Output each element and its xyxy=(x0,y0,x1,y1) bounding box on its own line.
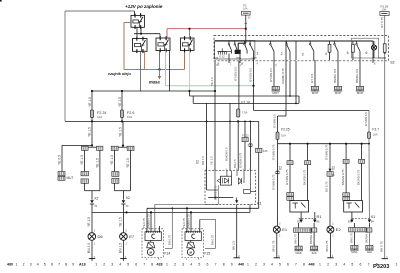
svg-text:F2.18: F2.18 xyxy=(241,100,250,104)
svg-text:R1: R1 xyxy=(317,215,322,219)
K1 pin wire g xyxy=(249,121,251,170)
svg-text:44: 44 xyxy=(126,204,129,208)
svg-text:2: 2 xyxy=(255,262,257,266)
connector MCP2 xyxy=(334,86,341,90)
svg-text:9: 9 xyxy=(72,262,74,266)
svg-text:GY/BN 0.5: GY/BN 0.5 xyxy=(269,68,273,82)
wire +12V feed to relay K? top xyxy=(65,10,135,12)
Y15 coil box xyxy=(185,232,201,241)
wire relay K3 pin to brown xyxy=(144,51,146,69)
net ladder top xyxy=(189,91,191,96)
relay R1 box xyxy=(290,201,309,213)
svg-text:D6: D6 xyxy=(98,234,104,239)
svg-text:BU 0.75: BU 0.75 xyxy=(324,181,328,192)
wire branch2 from bus xyxy=(122,121,124,146)
wire D6 to ground xyxy=(91,240,93,258)
S2 resistor a xyxy=(329,41,331,44)
fuse F2.6 tail xyxy=(121,118,123,122)
svg-text:S2: S2 xyxy=(390,60,394,64)
svg-text:YE 1.5: YE 1.5 xyxy=(80,155,84,165)
svg-text:YE 1.5: YE 1.5 xyxy=(126,158,130,168)
svg-text:BN/BU 0.75: BN/BU 0.75 xyxy=(187,214,191,228)
svg-text:2: 2 xyxy=(23,262,25,266)
svg-text:1: 1 xyxy=(125,255,127,259)
svg-text:BN 0.75: BN 0.75 xyxy=(294,233,298,244)
wire to fuse F2.24 xyxy=(91,91,93,110)
svg-text:1: 1 xyxy=(396,262,398,266)
svg-text:1: 1 xyxy=(16,262,18,266)
junction yellow-bus xyxy=(188,90,190,92)
K1 injector symbol xyxy=(220,176,231,185)
wire E7 to ground xyxy=(122,240,124,258)
svg-text:GY/BN 0.5: GY/BN 0.5 xyxy=(364,112,368,126)
S2 pin R1b xyxy=(295,41,297,60)
svg-text:7: 7 xyxy=(58,262,60,266)
svg-text:7: 7 xyxy=(215,262,217,266)
svg-text:YE 1.5: YE 1.5 xyxy=(88,97,92,107)
bus y110 to F3.7 xyxy=(254,109,370,111)
svg-text:GY/BN 0.75: GY/BN 0.75 xyxy=(271,144,275,160)
connector F3.22 xyxy=(242,138,248,142)
svg-text:2: 2 xyxy=(281,52,283,56)
R1 dashed link xyxy=(299,218,317,220)
wire S2 to F2.25 xyxy=(285,61,287,116)
svg-text:1: 1 xyxy=(279,234,281,238)
S2 coil blob xyxy=(235,50,240,54)
svg-text:GY/BN 0.75: GY/BN 0.75 xyxy=(324,144,328,160)
svg-text:YE 1.5: YE 1.5 xyxy=(87,217,91,227)
scan artifact top-left corner xyxy=(0,0,2,2)
connector arrow branch2 xyxy=(122,200,126,203)
wire K45 from bus xyxy=(258,121,260,148)
wire riser left xyxy=(64,11,66,121)
svg-text:E2: E2 xyxy=(336,227,342,232)
wire S2 resistor ground run xyxy=(384,52,386,258)
relay K4 (row mid) xyxy=(156,38,170,51)
svg-text:480: 480 xyxy=(7,262,13,266)
svg-text:2: 2 xyxy=(230,63,232,66)
wire F2.29 down xyxy=(384,15,386,43)
K1 dashed box xyxy=(205,171,256,205)
svg-text:X2: X2 xyxy=(94,197,98,201)
svg-text:5: 5 xyxy=(347,51,349,55)
svg-text:F3.7: F3.7 xyxy=(372,127,379,131)
svg-text:30: 30 xyxy=(248,17,251,19)
svg-text:BK/WH 0.75: BK/WH 0.75 xyxy=(309,228,313,244)
svg-text:E1: E1 xyxy=(282,227,288,232)
svg-text:X2: X2 xyxy=(126,196,130,200)
svg-text:BN/BU 0.75: BN/BU 0.75 xyxy=(147,214,151,228)
svg-text:GY/BN 0.5: GY/BN 0.5 xyxy=(273,114,277,128)
svg-text:1: 1 xyxy=(166,262,168,266)
Y15 valve xyxy=(190,241,192,243)
relay K2 (top) xyxy=(131,15,144,27)
svg-text:BN/YE 0.75: BN/YE 0.75 xyxy=(213,185,217,200)
junctions bus y212 xyxy=(125,211,127,213)
svg-text:YE 0.75: YE 0.75 xyxy=(182,218,186,228)
connector inline X1b xyxy=(359,159,365,163)
wire S2 pin2 to F2.18 xyxy=(238,61,240,109)
svg-text:GY/BN 0.75: GY/BN 0.75 xyxy=(285,169,289,185)
wire S2 pins to ladder xyxy=(289,61,291,96)
wire Y15 pin4 loop xyxy=(199,219,201,231)
junctions bus y144 xyxy=(289,143,291,145)
svg-text:YE 1.5: YE 1.5 xyxy=(210,77,214,86)
relay X1 box xyxy=(344,201,363,213)
svg-text:+12V po zaplonie: +12V po zaplonie xyxy=(125,4,163,9)
svg-text:YE 1.5: YE 1.5 xyxy=(210,156,214,165)
svg-text:8: 8 xyxy=(65,262,67,266)
S2 plain pin F225 xyxy=(285,41,287,61)
connector C15 xyxy=(81,171,89,175)
K1 pin wire e xyxy=(237,121,239,170)
svg-text:1: 1 xyxy=(186,258,188,261)
R1 connector strip xyxy=(294,228,312,233)
net ladder bottom xyxy=(193,102,299,104)
wire branch2 left leg xyxy=(114,150,116,171)
svg-text:8: 8 xyxy=(303,262,305,266)
bus y91 xyxy=(91,90,215,92)
svg-text:YE 1.5: YE 1.5 xyxy=(119,127,123,137)
wire branch2 left leg2 xyxy=(114,183,116,190)
wire R1 contact feed2 xyxy=(307,165,309,201)
wire E1 from bus xyxy=(277,144,279,226)
wire yellow from relay K5 xyxy=(189,51,191,92)
svg-text:440: 440 xyxy=(238,262,244,266)
svg-text:8: 8 xyxy=(374,63,376,66)
lamp E7 xyxy=(120,233,128,241)
svg-text:10A: 10A xyxy=(97,115,102,119)
X1 arrows xyxy=(351,212,353,220)
connector stack X1 xyxy=(343,193,350,197)
wires relay K2 to relay row xyxy=(136,27,138,38)
svg-text:7: 7 xyxy=(368,262,370,266)
wire branch2 to lamp xyxy=(122,204,124,233)
svg-text:42A: 42A xyxy=(312,251,317,255)
connector MCP3 xyxy=(356,86,363,90)
svg-text:YE 1.5: YE 1.5 xyxy=(119,217,123,227)
svg-text:MAK: MAK xyxy=(351,250,357,254)
S2 contacts 1-6 xyxy=(249,41,251,43)
svg-text:MOT: MOT xyxy=(272,91,279,95)
svg-text:YE 1.5: YE 1.5 xyxy=(95,158,99,168)
svg-text:X2: X2 xyxy=(332,166,336,170)
wire Y14 pin1 xyxy=(146,208,148,232)
relay pin stubs top xyxy=(134,11,136,15)
svg-text:BN/GN 0.75: BN/GN 0.75 xyxy=(341,169,345,185)
bus y144 xyxy=(278,143,370,145)
Y14 motor xyxy=(150,247,152,250)
connector R1 out1 xyxy=(295,246,302,250)
svg-text:6: 6 xyxy=(287,262,289,266)
svg-text:K1: K1 xyxy=(257,202,262,206)
lamp D6 xyxy=(88,233,96,241)
svg-text:1: 1 xyxy=(146,258,148,261)
connector X2 E2 xyxy=(329,169,332,172)
svg-text:6: 6 xyxy=(360,262,362,266)
wire green from relay K4 xyxy=(165,51,167,86)
svg-text:1: 1 xyxy=(386,255,388,259)
svg-text:3: 3 xyxy=(30,262,32,266)
svg-text:428: 428 xyxy=(157,262,163,266)
connector X pair branch2 xyxy=(111,146,118,150)
wire brown from relay to masa bus xyxy=(124,22,131,24)
S2 thick feed path xyxy=(245,41,247,43)
wire F3.7 down xyxy=(368,139,370,144)
wire fuse F2.30 down xyxy=(245,15,247,35)
lamp E2 xyxy=(327,226,334,233)
svg-text:1: 1 xyxy=(332,234,334,238)
svg-text:X2: X2 xyxy=(196,160,200,164)
svg-text:M: M xyxy=(149,250,152,254)
wire branch1 left leg xyxy=(84,150,86,171)
wire X1 out2 xyxy=(368,223,370,227)
svg-text:BU/GN 0.5: BU/GN 0.5 xyxy=(225,147,229,161)
relay K5 (row right) xyxy=(181,38,195,51)
svg-text:BK/WH 0.75: BK/WH 0.75 xyxy=(364,227,368,243)
K1 pin wire c xyxy=(229,103,231,170)
svg-text:YE 1.5: YE 1.5 xyxy=(118,97,122,107)
svg-text:5: 5 xyxy=(198,262,200,266)
svg-text:X1: X1 xyxy=(371,215,376,219)
S2 pin stubs xyxy=(228,54,230,64)
svg-text:4: 4 xyxy=(257,63,259,66)
junction green end xyxy=(252,85,254,87)
connector MCP1 xyxy=(311,86,318,90)
S2 resistor b xyxy=(352,41,354,44)
bus y208 K1 out xyxy=(147,207,259,209)
svg-text:YE 0.75: YE 0.75 xyxy=(142,218,146,228)
K1 pin wire f xyxy=(244,121,246,170)
svg-text:4: 4 xyxy=(37,262,39,266)
svg-text:10A: 10A xyxy=(281,134,286,138)
svg-text:3: 3 xyxy=(182,262,184,266)
svg-text:NWK: NWK xyxy=(236,58,242,60)
svg-text:3: 3 xyxy=(302,53,304,57)
svg-text:2: 2 xyxy=(279,221,281,225)
junction bus y208 xyxy=(186,207,188,209)
svg-text:W: W xyxy=(241,63,244,66)
connector C16 xyxy=(112,172,119,177)
K1 internal wires xyxy=(206,171,208,190)
svg-text:BN/BU 0.5: BN/BU 0.5 xyxy=(355,68,359,83)
S2 right resistor xyxy=(383,44,386,53)
svg-text:MAK: MAK xyxy=(295,251,301,255)
fuse F2.25 xyxy=(276,132,279,139)
S2 comb symbol xyxy=(217,51,227,53)
svg-text:2: 2 xyxy=(125,229,127,233)
connector stack R1 xyxy=(287,192,294,196)
svg-text:GY 0.5: GY 0.5 xyxy=(310,73,314,83)
svg-text:8: 8 xyxy=(223,262,225,266)
connector inline R1a xyxy=(287,161,293,165)
wire E2 from bus xyxy=(329,144,331,226)
wire R1 contact feed xyxy=(307,144,309,161)
svg-text:BN 0.75: BN 0.75 xyxy=(168,234,172,245)
svg-text:5: 5 xyxy=(351,262,353,266)
svg-text:1: 1 xyxy=(247,262,249,266)
wire relay K4 pin2 down xyxy=(168,51,170,92)
Y15 dashed box xyxy=(182,229,203,258)
wire F2.30 into bus2 xyxy=(245,35,247,41)
terminal E7 xyxy=(120,258,126,260)
svg-text:3: 3 xyxy=(275,64,277,67)
svg-text:6: 6 xyxy=(366,51,368,55)
svg-text:10A: 10A xyxy=(243,7,248,11)
wire Y15 pin1 xyxy=(186,208,188,232)
wire X1 contact feed xyxy=(361,144,363,160)
svg-text:MUT: MUT xyxy=(67,176,74,180)
svg-text:GMR: GMR xyxy=(252,58,258,60)
svg-text:1: 1 xyxy=(319,262,321,266)
Y15 motor xyxy=(190,247,192,250)
Y14 dashed box xyxy=(142,229,163,258)
svg-text:MCP: MCP xyxy=(312,91,318,95)
connector MUT xyxy=(58,172,65,176)
fuse F2.30 holder top xyxy=(242,11,251,15)
svg-text:F3.22: F3.22 xyxy=(242,134,249,137)
S2 inner bus xyxy=(215,40,373,42)
svg-text:BN 0.75: BN 0.75 xyxy=(272,240,276,251)
connector R1 out2 xyxy=(311,246,318,250)
svg-text:8: 8 xyxy=(151,262,153,266)
svg-text:2: 2 xyxy=(174,262,176,266)
S2 inner unit box xyxy=(215,41,255,60)
svg-text:1: 1 xyxy=(256,52,258,56)
wire R1 coil feed2 xyxy=(289,165,291,193)
svg-text:6: 6 xyxy=(135,262,137,266)
wire E1 ground xyxy=(276,233,278,258)
connector X1 out2 xyxy=(366,245,373,249)
svg-text:BK/RD 0.75: BK/RD 0.75 xyxy=(302,169,306,185)
ground arrow masa xyxy=(159,69,161,76)
svg-text:5: 5 xyxy=(127,262,129,266)
wire Y15 pin2 xyxy=(190,212,192,231)
junction red xyxy=(188,28,190,30)
svg-text:GY/GN 0.75: GY/GN 0.75 xyxy=(239,152,243,168)
svg-text:10A: 10A xyxy=(127,115,132,119)
connector X1 out1 xyxy=(351,245,358,249)
junctions bus y121 xyxy=(91,120,93,122)
svg-text:X2: X2 xyxy=(279,166,283,170)
svg-text:3: 3 xyxy=(335,262,337,266)
svg-text:YE 0.5: YE 0.5 xyxy=(58,155,62,165)
wire K4x down to bus2 xyxy=(258,152,260,208)
bus y121 xyxy=(65,120,259,122)
wire relay K3 gray down xyxy=(140,51,142,91)
svg-text:A18: A18 xyxy=(79,262,86,266)
terminal right ground xyxy=(382,258,388,260)
svg-text:BN 0.75: BN 0.75 xyxy=(211,234,215,245)
svg-text:F2.6: F2.6 xyxy=(127,111,134,115)
svg-text:F2.25: F2.25 xyxy=(281,128,290,132)
svg-text:M: M xyxy=(189,250,192,254)
svg-text:BN 0.75: BN 0.75 xyxy=(380,241,384,252)
svg-text:2: 2 xyxy=(327,262,329,266)
K1 bottom-right pin wires xyxy=(249,205,251,213)
fuse F2.29 holder xyxy=(380,12,389,16)
wire bus110 corner to F3.7 xyxy=(368,110,370,132)
svg-text:5: 5 xyxy=(198,258,200,261)
svg-text:4: 4 xyxy=(190,262,192,266)
wire Y14 pin4 xyxy=(159,226,161,232)
wire to MUT xyxy=(62,144,92,146)
svg-text:Y14: Y14 xyxy=(164,252,170,256)
connector K4x xyxy=(256,148,262,152)
fuse F2.6 xyxy=(120,110,123,118)
svg-text:RD 1.5: RD 1.5 xyxy=(201,156,205,165)
terminal E1 xyxy=(274,257,280,259)
net y204 Y14 pin3 xyxy=(155,203,219,205)
svg-text:3: 3 xyxy=(111,262,113,266)
svg-text:4: 4 xyxy=(325,52,327,56)
svg-text:BN 1.5: BN 1.5 xyxy=(87,243,91,253)
svg-text:448: 448 xyxy=(309,262,315,266)
wire X1 coil feed2 xyxy=(345,163,347,193)
svg-text:BN 0.75: BN 0.75 xyxy=(349,232,353,243)
wire X1 contact feed2 xyxy=(361,163,363,200)
K1 internals rail xyxy=(208,197,233,199)
svg-text:GY/GN 0.5: GY/GN 0.5 xyxy=(234,66,238,81)
wire branch1 left leg2 xyxy=(84,183,86,190)
svg-text:K45: K45 xyxy=(263,149,268,153)
wire K1 ground xyxy=(236,205,238,258)
relay X1 internals xyxy=(346,202,352,204)
svg-text:2: 2 xyxy=(332,221,334,225)
wire S2 to MCP1 xyxy=(314,60,316,86)
Y14 motor right wire xyxy=(171,208,173,248)
K1 resistor xyxy=(244,190,251,194)
svg-text:4: 4 xyxy=(119,262,121,266)
fuse F2.18 xyxy=(237,109,240,117)
lamp E1 xyxy=(273,226,280,233)
Y14 valve xyxy=(150,241,152,243)
terminal E2 xyxy=(327,257,333,259)
svg-text:WH/BK 0.75: WH/BK 0.75 xyxy=(281,68,285,84)
connector X pair branch1 xyxy=(81,146,88,150)
svg-text:BK/RD 0.75: BK/RD 0.75 xyxy=(356,169,360,185)
wire branch1 to lamp xyxy=(91,204,93,233)
svg-text:BN 0.5: BN 0.5 xyxy=(233,159,237,168)
svg-text:YE 1.5: YE 1.5 xyxy=(110,155,114,165)
wire red bus xyxy=(167,28,246,30)
wire S2 to MCP3 xyxy=(359,60,361,86)
wire R1 out2 xyxy=(313,223,315,228)
wire X1 coil feed xyxy=(345,144,347,160)
fuse F2.25 tail xyxy=(277,139,279,143)
svg-text:7.5A: 7.5A xyxy=(242,111,248,115)
switch S2 dashed box xyxy=(214,35,389,60)
svg-text:30: 30 xyxy=(332,174,335,177)
svg-text:MCP: MCP xyxy=(357,91,363,95)
svg-text:GY/BN 0.75: GY/BN 0.75 xyxy=(271,174,275,190)
K1 bottom arrow xyxy=(236,198,238,201)
svg-text:5: 5 xyxy=(44,262,46,266)
wire R1 coil feed xyxy=(289,144,291,161)
svg-text:BN 0.75: BN 0.75 xyxy=(325,240,329,251)
wire branch2 U bottom xyxy=(115,190,131,192)
svg-text:MCP: MCP xyxy=(335,91,341,95)
S2 lamp unit box xyxy=(352,38,379,58)
svg-text:F2.24: F2.24 xyxy=(97,111,106,115)
R1 arrows xyxy=(300,212,302,220)
svg-text:GY 0.75: GY 0.75 xyxy=(380,17,384,28)
fuse F3.7 xyxy=(368,132,371,139)
wire branch1 from bus xyxy=(91,121,93,145)
terminal D6 xyxy=(89,258,95,260)
svg-text:6: 6 xyxy=(51,262,53,266)
wire relay K4 pin down xyxy=(159,51,161,70)
